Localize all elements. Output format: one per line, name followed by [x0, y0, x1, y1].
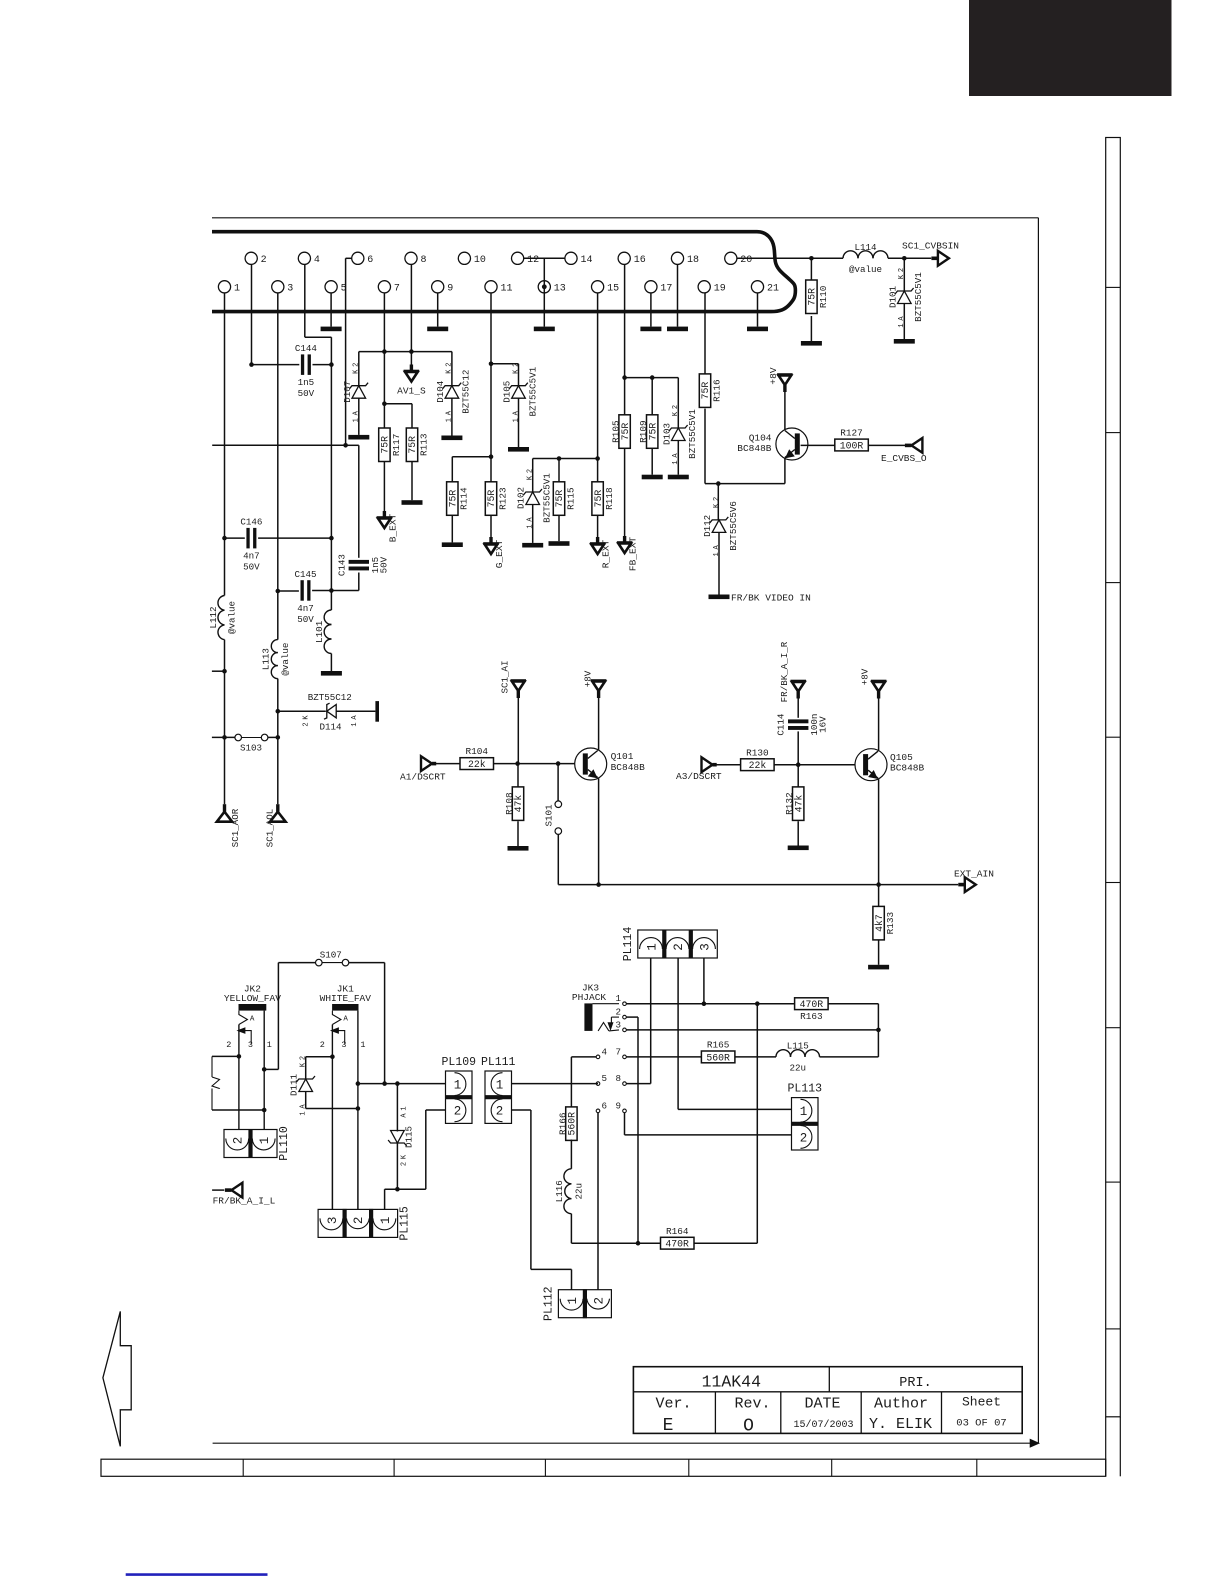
- svg-text:4n7: 4n7: [243, 551, 260, 562]
- label SC1_CVBSIN: [902, 240, 959, 251]
- svg-text:L114: L114: [854, 242, 877, 253]
- svg-text:Q105: Q105: [890, 752, 913, 763]
- svg-text:BZT55C12: BZT55C12: [461, 370, 472, 414]
- wire Q104 emitter: [784, 459, 786, 484]
- wire R116 bottom: [705, 409, 785, 484]
- svg-text:@value: @value: [849, 264, 882, 275]
- svg-text:75R: 75R: [448, 490, 459, 508]
- ground pin21: [747, 327, 768, 332]
- svg-text:2: 2: [800, 1131, 808, 1145]
- right frame ruler: [1106, 138, 1121, 1477]
- wire D112 bottom: [718, 532, 720, 594]
- svg-text:2: 2: [401, 1162, 409, 1166]
- svg-text:2: 2: [615, 1007, 621, 1018]
- wire Q101 collector: [598, 698, 600, 751]
- svg-text:50V: 50V: [298, 388, 315, 399]
- node L114-D101: [902, 256, 907, 261]
- wire row y1189: [385, 1188, 426, 1190]
- svg-text:A1/DSCRT: A1/DSCRT: [400, 772, 446, 783]
- diode D105 zener: [502, 363, 539, 423]
- label B_EXT: [387, 513, 398, 542]
- svg-text:2: 2: [672, 405, 680, 409]
- wire row y377: [625, 377, 679, 379]
- svg-text:E_CVBS_O: E_CVBS_O: [881, 453, 927, 464]
- transistor Q101 BC848B: [575, 748, 607, 780]
- inductor L113: [260, 640, 291, 679]
- flag SC1_AOL: [270, 804, 286, 822]
- wire R123 bottom: [490, 515, 492, 537]
- wire R130 right: [774, 764, 855, 766]
- arrow SC1_CVBSIN: [931, 251, 949, 266]
- diode D102 zener: [516, 469, 553, 529]
- node S103 left: [222, 735, 227, 740]
- wire R110 bottom: [810, 316, 812, 341]
- wire row y351: [359, 351, 452, 353]
- label FR/BK_A_I_R: [779, 641, 790, 702]
- wire Q104 base: [801, 444, 835, 446]
- svg-text:8: 8: [421, 255, 427, 266]
- node S103 right: [276, 735, 281, 740]
- svg-text:L113: L113: [260, 648, 271, 670]
- wire JK3 pin4 jog: [571, 1057, 596, 1107]
- svg-text:12: 12: [527, 255, 539, 266]
- arrow A1/DSCRT: [421, 756, 436, 771]
- arrow A3/DSCRT: [702, 757, 717, 772]
- svg-text:R132: R132: [784, 792, 795, 815]
- label L112: [208, 606, 219, 628]
- wire pin6 row y445: [212, 444, 345, 446]
- wire D102 top: [532, 459, 534, 493]
- resistor R132: [784, 787, 804, 821]
- flag SC1_AOR: [217, 804, 232, 822]
- flag B_EXT: [377, 511, 393, 528]
- arrow E_CVBS-O: [905, 438, 923, 453]
- svg-text:G_EXT: G_EXT: [494, 539, 505, 568]
- svg-text:2: 2: [352, 1217, 366, 1225]
- node net4-C146: [329, 536, 334, 541]
- wire S107 left: [264, 963, 315, 1070]
- svg-text:R130: R130: [746, 747, 769, 758]
- svg-text:Y. ELIK: Y. ELIK: [869, 1416, 932, 1433]
- svg-text:75R: 75R: [554, 490, 565, 508]
- svg-text:50V: 50V: [378, 556, 389, 573]
- ground D102: [522, 543, 543, 548]
- connector PL113: [788, 1083, 823, 1150]
- svg-text:1: 1: [351, 722, 359, 726]
- svg-text:A: A: [351, 715, 359, 720]
- wire R115 drop: [558, 459, 560, 482]
- flag FR/BK_A_I_R: [791, 681, 807, 699]
- ground R114: [442, 542, 463, 547]
- svg-text:BZT55C12: BZT55C12: [308, 692, 352, 703]
- svg-text:PL112: PL112: [542, 1286, 555, 1321]
- node SC1_AI junction: [515, 761, 520, 766]
- svg-text:C143: C143: [336, 554, 347, 576]
- node pin2-C144: [249, 362, 254, 367]
- wire pin9 stub: [437, 293, 439, 327]
- inductor L101: [314, 610, 332, 654]
- svg-text:03 OF 07: 03 OF 07: [956, 1417, 1006, 1429]
- svg-text:SC1_AOR: SC1_AOR: [230, 808, 241, 847]
- svg-text:PL115: PL115: [399, 1206, 412, 1241]
- svg-text:21: 21: [767, 283, 779, 294]
- svg-text:FR/BK VIDEO IN: FR/BK VIDEO IN: [731, 593, 811, 604]
- svg-text:75R: 75R: [486, 490, 497, 508]
- connector pin 5: [325, 281, 347, 295]
- resistor R164: [661, 1226, 695, 1250]
- svg-text:AV1_S: AV1_S: [397, 386, 426, 397]
- diode D111 zener: [289, 1056, 315, 1116]
- svg-text:K: K: [401, 1154, 409, 1159]
- wire S107 right: [349, 963, 385, 1084]
- label D115 name: [404, 1126, 415, 1148]
- ground D104: [441, 436, 462, 441]
- wire JK3 pin6 drop: [597, 1113, 599, 1290]
- diode D115 zener: [388, 1106, 409, 1166]
- wire C114 bottom: [797, 731, 799, 764]
- resistor R110: [806, 280, 829, 314]
- resistor R117: [379, 428, 402, 462]
- svg-text:D103: D103: [661, 423, 672, 445]
- svg-text:13: 13: [554, 283, 566, 294]
- svg-text:15: 15: [607, 283, 619, 294]
- label FR/BK_A_I_L: [213, 1195, 276, 1206]
- flag +8V Q104: [777, 375, 793, 393]
- svg-text:75R: 75R: [807, 288, 818, 306]
- jack JK2 YELLOW_FAV: [224, 984, 281, 1131]
- svg-text:A: A: [343, 1016, 348, 1024]
- wire JK1 pin2 ext: [331, 1130, 333, 1209]
- svg-text:8: 8: [615, 1073, 621, 1084]
- jack JK1 WHITE_FAV: [320, 984, 372, 1131]
- resistor R127: [835, 428, 869, 452]
- svg-text:R118: R118: [604, 487, 615, 510]
- node pin3-C145: [276, 589, 281, 594]
- wire pin6 stub+vertical: [346, 258, 352, 445]
- wire SC1_AI drop: [517, 698, 519, 764]
- jack JK3 PHJACK: [572, 983, 619, 1031]
- wire R108 top: [517, 764, 519, 787]
- svg-text:@value: @value: [280, 643, 291, 676]
- wire Q101 emitter: [598, 779, 600, 885]
- resistor R130: [741, 747, 775, 771]
- svg-text:BZT55C5V1: BZT55C5V1: [527, 366, 538, 416]
- ground L101: [321, 671, 342, 676]
- wire net4 vertical: [330, 365, 332, 610]
- wire L116 bottom: [571, 1214, 660, 1244]
- switch S107: [316, 950, 349, 966]
- wire JK3 pin3 row: [626, 1029, 878, 1031]
- node pin1-left stub: [222, 669, 227, 674]
- wire pin4 jog: [305, 264, 332, 364]
- connector pin 7: [378, 281, 400, 295]
- wire R166-L116: [570, 1140, 572, 1169]
- node JK2 pin1 y1110: [262, 1108, 267, 1113]
- switch S101: [544, 764, 562, 885]
- arrow EXT_AIN: [958, 877, 976, 892]
- wire R113 bottom: [411, 462, 413, 501]
- svg-text:PL113: PL113: [788, 1083, 823, 1096]
- svg-text:R164: R164: [666, 1226, 689, 1237]
- svg-text:SC1_AOL: SC1_AOL: [265, 809, 276, 848]
- jack JK3 pin 4: [596, 1046, 607, 1058]
- svg-text:@value: @value: [227, 601, 238, 634]
- wire JK3 pin9 jog: [625, 1113, 792, 1135]
- transistor Q105 BC848B: [855, 749, 887, 781]
- svg-text:C114: C114: [776, 713, 787, 736]
- svg-text:6: 6: [602, 1100, 608, 1111]
- transistor Q104 BC848B: [776, 428, 808, 460]
- svg-text:D114: D114: [320, 722, 343, 733]
- node pin7-D107row: [382, 349, 387, 354]
- ground D103: [668, 475, 689, 480]
- wire R114 jog: [452, 457, 491, 482]
- svg-text:R117: R117: [391, 434, 402, 457]
- svg-text:2: 2: [593, 1297, 607, 1305]
- wire R117 bottom: [383, 462, 385, 512]
- svg-text:9: 9: [615, 1100, 621, 1111]
- svg-text:R_EXT: R_EXT: [601, 539, 612, 568]
- svg-text:R113: R113: [418, 433, 429, 456]
- wire C143 bottom: [331, 573, 358, 591]
- svg-text:50V: 50V: [297, 614, 314, 625]
- connector pin 8: [405, 252, 427, 266]
- svg-text:1: 1: [454, 1079, 462, 1093]
- svg-text:O: O: [743, 1417, 754, 1437]
- label SC1_AI: [499, 660, 510, 693]
- wire pin21 stub: [757, 293, 759, 327]
- wire pin15 vertical: [597, 293, 599, 482]
- svg-text:560R: 560R: [706, 1052, 730, 1063]
- bottom frame ruler: [101, 1459, 1106, 1476]
- svg-text:R110: R110: [818, 285, 829, 308]
- connector pin 18: [671, 252, 699, 266]
- title block: [633, 1367, 1022, 1437]
- resistor R109: [638, 415, 658, 449]
- svg-text:R116: R116: [711, 379, 722, 402]
- svg-text:PHJACK: PHJACK: [572, 992, 607, 1003]
- svg-text:EXT_AIN: EXT_AIN: [954, 869, 994, 880]
- svg-text:2: 2: [261, 255, 267, 266]
- label SC1_AOL: [265, 809, 276, 848]
- resistor R116: [699, 374, 722, 408]
- ground R132: [788, 846, 809, 851]
- connector pin 2: [245, 252, 267, 266]
- wire pin7 vertical: [383, 293, 385, 428]
- wire R165-L115: [735, 1056, 776, 1058]
- resistor R104: [460, 746, 494, 770]
- connector pin 9: [432, 281, 454, 295]
- flag +8V Q105: [871, 681, 887, 699]
- connector PL114: [622, 927, 718, 962]
- wire R113 jog: [384, 404, 412, 428]
- svg-text:4: 4: [602, 1046, 608, 1057]
- svg-text:D107: D107: [342, 381, 353, 403]
- node R115 top: [557, 456, 562, 461]
- jack JK3 pin 5: [596, 1073, 607, 1085]
- svg-text:BC848B: BC848B: [611, 762, 646, 773]
- svg-text:1: 1: [645, 943, 659, 951]
- node pin15-row458: [595, 456, 600, 461]
- svg-text:R105: R105: [611, 420, 622, 443]
- wire R133 bottom: [878, 940, 880, 965]
- svg-text:2: 2: [300, 1056, 308, 1060]
- svg-text:+8V: +8V: [860, 668, 871, 685]
- flag R_EXT: [590, 537, 606, 554]
- wire C145 left: [278, 590, 299, 592]
- node D115 bottom: [395, 1187, 400, 1192]
- svg-text:R166: R166: [557, 1112, 568, 1135]
- wire D103 drop: [677, 378, 679, 428]
- connector pin 15: [592, 281, 620, 295]
- capacitor C114: [776, 713, 829, 736]
- node pin1-C146: [222, 536, 227, 541]
- svg-text:YELLOW_FAV: YELLOW_FAV: [224, 993, 281, 1004]
- resistor R163: [795, 998, 829, 1022]
- ground R109: [642, 475, 663, 480]
- wire L101 bottom: [330, 654, 332, 672]
- svg-text:22u: 22u: [574, 1183, 585, 1200]
- svg-text:FR/BK_A_I_L: FR/BK_A_I_L: [213, 1195, 276, 1206]
- resistor R108: [504, 787, 524, 821]
- svg-text:D112: D112: [702, 515, 713, 537]
- wire stub left y671: [212, 670, 225, 672]
- svg-text:R123: R123: [497, 487, 508, 510]
- wire D102 bottom: [532, 505, 534, 543]
- connector pin 17: [645, 281, 673, 295]
- svg-text:2: 2: [226, 1040, 231, 1050]
- svg-text:75R: 75R: [407, 436, 418, 454]
- svg-text:16V: 16V: [818, 716, 829, 733]
- svg-text:A3/DSCRT: A3/DSCRT: [676, 771, 722, 782]
- svg-text:Ver.: Ver.: [655, 1396, 691, 1413]
- wire R127 right: [868, 444, 905, 446]
- svg-text:L101: L101: [314, 620, 325, 643]
- svg-text:1: 1: [258, 1137, 272, 1145]
- svg-text:1: 1: [615, 993, 621, 1004]
- wire pin8 vertical: [410, 264, 412, 351]
- svg-text:1: 1: [401, 1106, 409, 1110]
- inductor L116: [554, 1169, 585, 1214]
- wire C114 top: [797, 698, 799, 718]
- svg-text:11AK44: 11AK44: [702, 1372, 762, 1391]
- wire PL115 pin3 up: [0, 0, 1, 1]
- connector JK SCART outline: [212, 232, 795, 312]
- schematic frame border: [212, 218, 1039, 1447]
- svg-text:18: 18: [687, 255, 699, 266]
- svg-text:1: 1: [360, 1040, 365, 1050]
- svg-text:6: 6: [367, 255, 373, 266]
- svg-text:Rev.: Rev.: [734, 1396, 770, 1413]
- wire A3 to R130: [716, 764, 740, 766]
- resistor R133: [873, 906, 896, 940]
- svg-text:K: K: [303, 715, 311, 720]
- wire jog to C143: [346, 445, 359, 558]
- connector pin 1: [218, 281, 240, 295]
- wire row y458: [533, 458, 598, 460]
- wire pin11 vertical: [490, 293, 492, 482]
- diode D103 zener: [661, 405, 698, 465]
- ground pin18: [667, 327, 688, 332]
- node Q101 base junction: [556, 761, 561, 766]
- wire pin1 vertical: [224, 293, 226, 804]
- svg-text:R115: R115: [565, 487, 576, 510]
- wire D111 bottom: [306, 1091, 358, 1108]
- node D115-y1083: [395, 1081, 400, 1086]
- wire D105 bottom: [518, 398, 520, 447]
- svg-text:7: 7: [394, 283, 400, 294]
- wire D107 bottom: [358, 398, 360, 435]
- label A1/DSCRT: [400, 772, 446, 783]
- ground D105: [508, 447, 529, 452]
- svg-text:PL110: PL110: [278, 1126, 291, 1161]
- resistor R115: [553, 482, 576, 516]
- svg-text:1: 1: [800, 1105, 808, 1119]
- node pin8-row: [409, 349, 414, 354]
- svg-text:19: 19: [714, 283, 726, 294]
- svg-text:1: 1: [234, 283, 240, 294]
- svg-text:BC848B: BC848B: [890, 763, 925, 774]
- node PL114p3-row: [702, 1001, 707, 1006]
- label G_EXT: [494, 539, 505, 568]
- wire L114 right: [888, 257, 931, 259]
- svg-text:Q101: Q101: [611, 751, 634, 762]
- node S107-y1083: [382, 1081, 387, 1086]
- wire R118 bottom: [597, 515, 599, 537]
- node pin4-C144: [329, 362, 334, 367]
- capacitor C144: [295, 343, 318, 399]
- connector pin 13: [538, 281, 566, 295]
- label +8V Q101: [583, 670, 594, 687]
- label SC1_AOR: [230, 808, 241, 847]
- svg-text:4n7: 4n7: [297, 603, 314, 614]
- ground pin9: [427, 327, 448, 332]
- wire C146 right: [258, 537, 331, 539]
- svg-text:22k: 22k: [468, 759, 486, 770]
- connector PL109: [442, 1056, 477, 1123]
- svg-text:E: E: [663, 1416, 674, 1436]
- wire D115 vertical top: [396, 1084, 398, 1132]
- svg-text:3: 3: [341, 1040, 346, 1050]
- svg-text:11: 11: [501, 283, 513, 294]
- svg-text:D102: D102: [516, 487, 527, 509]
- inductor L114: [843, 242, 888, 275]
- arrow FR/BK-A-I-L: [212, 1183, 242, 1198]
- ground pin17: [640, 327, 661, 332]
- wire PL111 pin2 right: [512, 1110, 572, 1290]
- node pin16-row377: [622, 375, 627, 380]
- svg-text:PL114: PL114: [622, 927, 635, 962]
- connector pin 3: [272, 281, 294, 295]
- diode D104 zener: [435, 363, 472, 423]
- wire pins 12-13-14 tie: [524, 258, 565, 326]
- ground R110: [801, 341, 822, 346]
- label +8V Q104: [768, 367, 779, 384]
- node JK2 pin1 S107: [262, 1067, 267, 1072]
- svg-text:75R: 75R: [380, 436, 391, 454]
- wire Q105 collector: [878, 698, 880, 751]
- svg-text:470R: 470R: [800, 999, 824, 1010]
- svg-text:L116: L116: [554, 1180, 565, 1202]
- resistor R165: [701, 1040, 735, 1064]
- node R130-C114: [796, 762, 801, 767]
- terminal bar D114: [375, 701, 379, 722]
- connector pin 21: [751, 281, 779, 295]
- node pin3-D114: [276, 709, 281, 714]
- wire R115 bottom: [558, 515, 560, 541]
- wire pin18 stub: [677, 264, 679, 326]
- label EXT_AIN: [954, 869, 994, 880]
